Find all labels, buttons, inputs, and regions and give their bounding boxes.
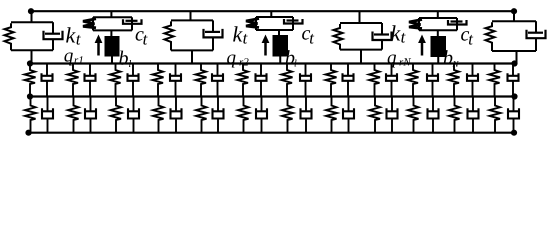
- label ct for U4: [302, 30, 314, 44]
- row2 damper D2-12: [508, 97, 519, 133]
- row2 spring S2-9: [370, 97, 381, 133]
- row1 spring S1-11: [449, 64, 460, 97]
- contact spring of U6: [409, 20, 422, 29]
- wire: rail-pad interface rail 1: [30, 62, 515, 64]
- contact spring of U4: [246, 19, 259, 28]
- row2 damper D2-3: [128, 97, 139, 133]
- row2 spring S2-4: [153, 97, 164, 133]
- wire: U2 top stem: [110, 11, 112, 17]
- row1 spring S1-7: [282, 64, 293, 97]
- label b1: [119, 51, 131, 67]
- label bN: [444, 50, 459, 67]
- wire: U6 loop-to-mass stem: [437, 30, 439, 36]
- frame of unit U7: [492, 21, 536, 51]
- row1 damper D1-8: [343, 64, 354, 97]
- spring kt of U1: [5, 23, 14, 50]
- row2 damper D2-2: [85, 97, 96, 133]
- node: rail3 right junction: [511, 130, 517, 136]
- force arrow at U2: [95, 35, 103, 56]
- wire: U6 mass-to-rail stem: [437, 57, 439, 64]
- node: rail3 left junction: [25, 130, 31, 136]
- label qrN: [388, 55, 411, 68]
- row1 spring S1-3: [110, 64, 121, 97]
- row2 damper D2-4: [171, 97, 182, 133]
- row2 spring S2-11: [449, 97, 460, 133]
- row1 spring S1-4: [153, 64, 164, 97]
- row2 damper D2-8: [343, 97, 354, 133]
- wire: U1 top stem: [31, 11, 33, 22]
- row2 spring S2-3: [111, 97, 122, 133]
- row1 spring S1-9: [369, 64, 380, 97]
- wire: U2 loop-to-mass stem: [110, 30, 112, 36]
- row1 spring S1-12: [489, 64, 500, 97]
- row1 damper D1-2: [85, 64, 96, 97]
- label kt for U1: [66, 27, 81, 44]
- damper ct of U4: [284, 19, 303, 24]
- frame of unit U2: [93, 17, 132, 30]
- row2 spring S2-12: [490, 97, 501, 133]
- wire: U6 top stem: [437, 11, 439, 18]
- row1 damper D1-10: [427, 64, 438, 97]
- spring kt of U3: [165, 21, 174, 50]
- row1 damper D1-11: [467, 64, 478, 97]
- frame of unit U6: [419, 18, 457, 30]
- row2 damper D2-5: [213, 97, 224, 133]
- wire: U4 top stem: [270, 11, 272, 17]
- row2 spring S2-2: [68, 97, 79, 133]
- label ct for U2: [136, 31, 148, 45]
- node: rail2 right junction: [511, 93, 517, 99]
- label kt for U3: [233, 26, 248, 43]
- row2 damper D2-10: [428, 97, 439, 133]
- mass b1 of U2: [105, 36, 120, 57]
- row1 spring S1-6: [238, 64, 249, 97]
- node: rail2 left junction: [27, 93, 33, 99]
- row2 damper D2-6: [256, 97, 267, 133]
- row2 spring S2-1: [25, 97, 36, 133]
- row2 spring S2-6: [238, 97, 249, 133]
- frame of unit U4: [256, 17, 293, 30]
- wire: U3 top stem: [190, 11, 192, 20]
- mass b2 of U4: [273, 35, 289, 57]
- row1 damper D1-3: [128, 64, 139, 97]
- damper of U7: [527, 21, 546, 51]
- spring kt of U7: [486, 22, 495, 51]
- damper of U1: [44, 22, 63, 50]
- row1 damper D1-1: [42, 64, 53, 97]
- wire: U5 top stem: [359, 11, 361, 23]
- row1 spring S1-5: [196, 64, 207, 97]
- node: top rail right junction: [511, 8, 517, 14]
- row1 spring S1-1: [25, 64, 36, 97]
- label b2: [286, 50, 297, 66]
- mass bN of U6: [431, 36, 447, 57]
- row2 spring S2-10: [408, 97, 419, 133]
- wire: sleeper rail 2: [30, 95, 515, 97]
- wire: U4 loop-to-mass stem: [278, 30, 280, 35]
- node: rail1 left junction: [27, 60, 33, 66]
- label ct for U6: [461, 31, 473, 45]
- wire: U3 bottom stem: [191, 50, 193, 63]
- row2 spring S2-5: [196, 97, 207, 133]
- wire: U1 bottom stem: [31, 50, 33, 63]
- row1 spring S1-2: [68, 64, 79, 97]
- damper ct of U6: [448, 20, 467, 25]
- frame of unit U3: [171, 20, 213, 50]
- wire: U7 top stem: [513, 11, 515, 21]
- node: top rail left junction: [28, 8, 34, 14]
- row2 spring S2-7: [282, 97, 293, 133]
- row2 damper D2-9: [387, 97, 398, 133]
- row1 spring S1-8: [326, 64, 337, 97]
- damper of U3: [204, 20, 223, 50]
- row1 damper D1-5: [212, 64, 223, 97]
- frame of unit U1: [11, 22, 53, 50]
- row2 damper D2-11: [468, 97, 479, 133]
- spring kt of U5: [334, 24, 343, 50]
- label qr1: [64, 53, 82, 66]
- damper of U5: [373, 23, 392, 50]
- wire: ground rail 3: [29, 132, 515, 134]
- label qr2: [227, 55, 248, 68]
- force arrow at U6: [418, 35, 426, 56]
- contact spring of U2: [83, 19, 96, 28]
- wire: U4 mass-to-rail stem: [279, 57, 281, 64]
- wire: top rail: [31, 10, 515, 12]
- row2 damper D2-7: [301, 97, 312, 133]
- frame of unit U5: [340, 23, 382, 50]
- damper ct of U2: [123, 19, 142, 24]
- row1 spring S1-10: [408, 64, 419, 97]
- row2 damper D2-1: [42, 97, 53, 133]
- row1 damper D1-9: [386, 64, 397, 97]
- wire: U5 bottom stem: [360, 50, 362, 64]
- row1 damper D1-4: [170, 64, 181, 97]
- row1 damper D1-6: [256, 64, 267, 97]
- force arrow at U4: [262, 35, 270, 56]
- wire: U2 mass-to-rail stem: [111, 57, 113, 64]
- row1 damper D1-12: [508, 64, 519, 97]
- row2 spring S2-8: [326, 97, 337, 133]
- label kt for U5: [391, 25, 406, 42]
- node: rail1 right junction: [511, 60, 517, 66]
- row1 damper D1-7: [300, 64, 311, 97]
- wire: U7 bottom stem: [516, 51, 518, 64]
